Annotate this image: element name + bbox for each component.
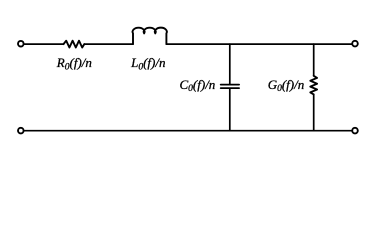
terminal top-left	[18, 41, 24, 47]
inductor L0(f)/n	[133, 28, 167, 44]
svg-text:R0(f)/n: R0(f)/n	[56, 55, 92, 72]
terminal top-right	[352, 41, 358, 47]
wire top: left terminal to R1	[24, 43, 63, 45]
wire top: L1 to right terminal (through nodes)	[166, 43, 351, 45]
resistor (conductance) G0(f)/n vertical zigzag	[310, 76, 317, 95]
capacitor C0(f)/n bottom plate	[221, 87, 239, 89]
wire: capacitor to bottom rail	[229, 89, 231, 131]
wire: top node down to conductance G	[313, 44, 315, 76]
svg-text:C0(f)/n: C0(f)/n	[180, 77, 216, 94]
wire top: R1 to L1	[84, 43, 133, 45]
wire: top node down to capacitor	[229, 44, 231, 84]
terminal bottom-right	[352, 128, 358, 134]
capacitor C0(f)/n top plate	[221, 84, 239, 86]
resistor R0(f)/n zigzag	[64, 41, 85, 48]
svg-text:G0(f)/n: G0(f)/n	[268, 77, 305, 94]
wire bottom rail	[24, 130, 351, 132]
svg-text:L0(f)/n: L0(f)/n	[130, 55, 165, 72]
wire: G to bottom rail	[313, 94, 315, 130]
terminal bottom-left	[18, 128, 24, 134]
